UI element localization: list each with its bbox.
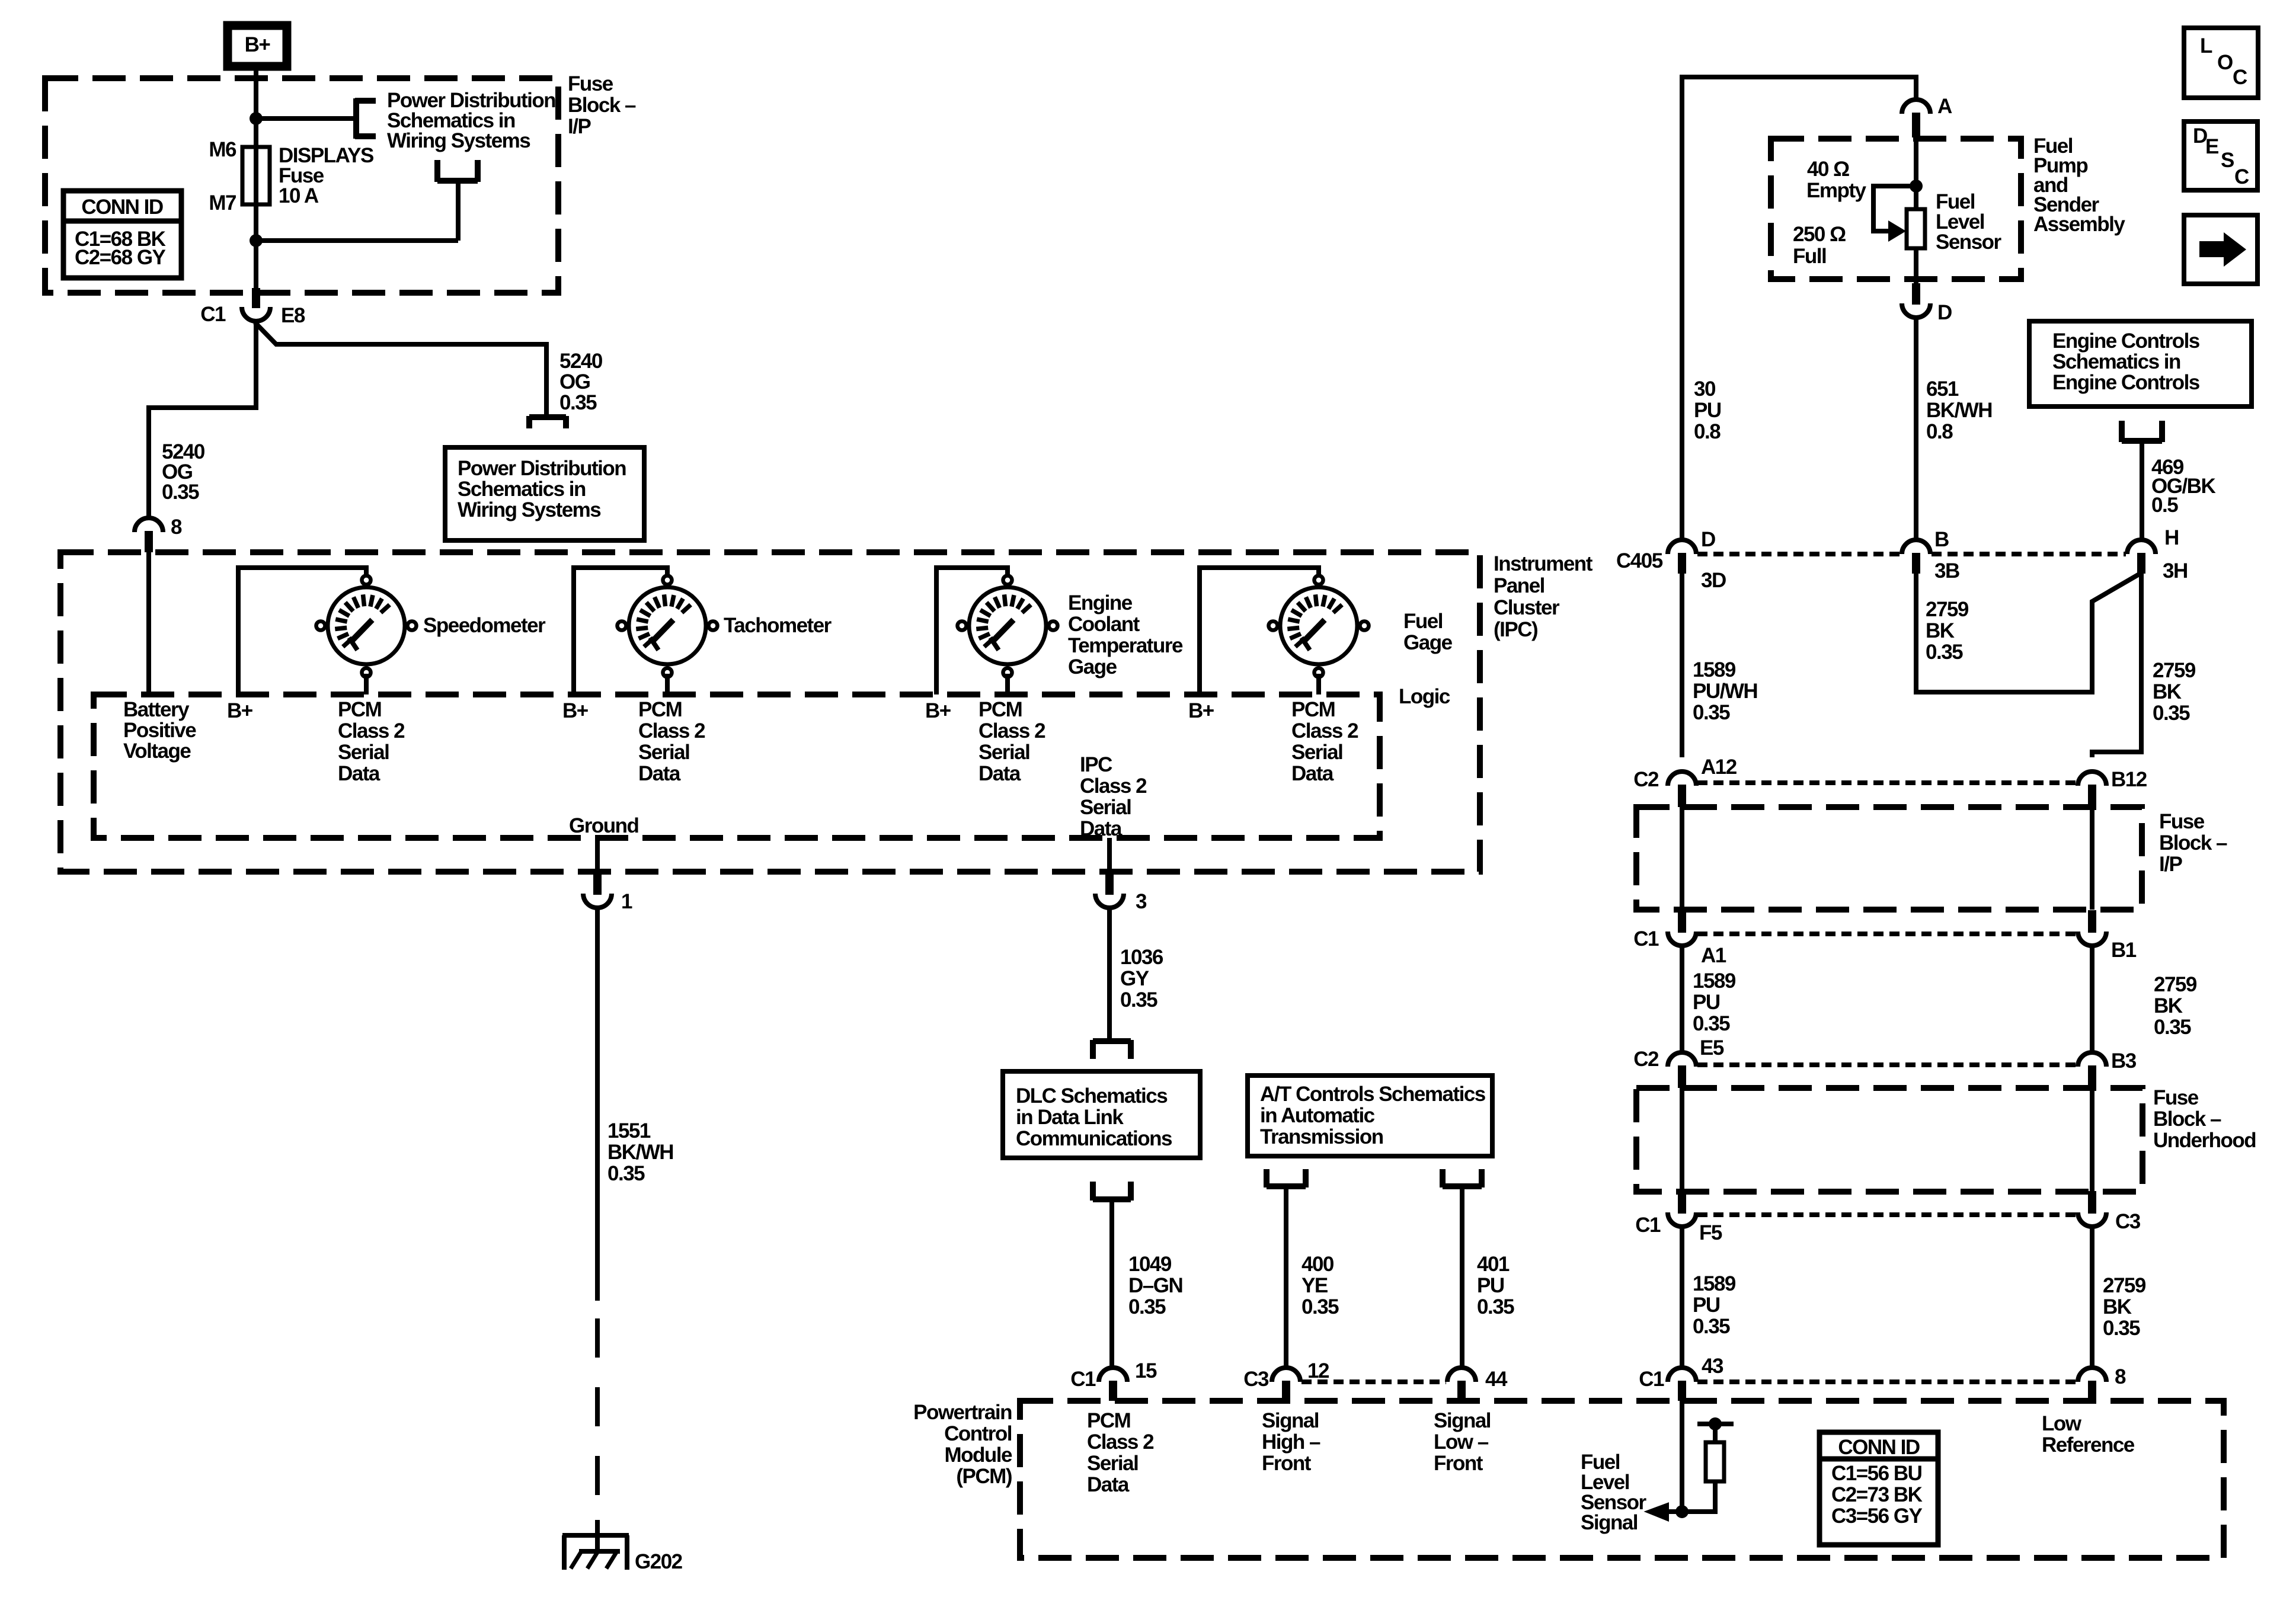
svg-text:Assembly: Assembly bbox=[2033, 213, 2125, 236]
legend box arrow bbox=[2184, 215, 2257, 284]
svg-text:1036: 1036 bbox=[1120, 946, 1163, 969]
label Power Distribution Schematics in Wiring Systems bbox=[387, 89, 555, 152]
svg-text:0.35: 0.35 bbox=[2154, 1016, 2191, 1039]
svg-text:Power Distribution: Power Distribution bbox=[458, 457, 626, 480]
label Fuel Level Sensor bbox=[1936, 190, 2002, 254]
box A/T Controls Schematics in Automatic Transmission bbox=[1248, 1076, 1492, 1156]
svg-text:B3: B3 bbox=[2111, 1049, 2137, 1073]
connector 3 (IPC class 2) bbox=[1095, 873, 1124, 908]
svg-text:Class 2: Class 2 bbox=[1291, 719, 1358, 742]
junction node wiper bbox=[1910, 180, 1923, 193]
svg-text:C1: C1 bbox=[1070, 1368, 1096, 1391]
svg-text:1589: 1589 bbox=[1693, 658, 1736, 681]
wire IPC serial inside IPC bbox=[1107, 838, 1112, 873]
connector C1 pin 43 (PCM) bbox=[1668, 1368, 1696, 1401]
svg-text:Fuel: Fuel bbox=[1403, 610, 1443, 633]
svg-text:3B: 3B bbox=[1934, 559, 1959, 582]
wire 2759 BK (C3-8) bbox=[2090, 1227, 2094, 1369]
svg-text:High –: High – bbox=[1262, 1430, 1320, 1454]
svg-text:C3: C3 bbox=[1243, 1368, 1269, 1391]
svg-text:0.35: 0.35 bbox=[162, 481, 199, 504]
connector C1 pin A1 bbox=[1668, 910, 1696, 946]
svg-text:B+: B+ bbox=[245, 33, 271, 56]
label Instrument Panel Cluster (IPC) bbox=[1494, 552, 1593, 641]
label circuit 469 OG/BK 0.5 bbox=[2151, 456, 2215, 517]
svg-text:Module: Module bbox=[945, 1443, 1013, 1467]
connector B3 bbox=[2078, 1052, 2106, 1088]
svg-text:Positive: Positive bbox=[123, 719, 196, 742]
wire Tachometer class 2 output bbox=[665, 674, 670, 694]
svg-text:DLC Schematics: DLC Schematics bbox=[1016, 1084, 1168, 1108]
wire resistor top bbox=[1713, 1424, 1718, 1442]
wire 2759 BK to B12 bbox=[2092, 574, 2141, 757]
svg-text:Data: Data bbox=[1087, 1473, 1130, 1496]
svg-text:Wiring Systems: Wiring Systems bbox=[387, 129, 530, 152]
bracket under A/T box (signal high) bbox=[1267, 1169, 1306, 1188]
svg-text:3: 3 bbox=[1136, 890, 1147, 913]
label pin A1 bbox=[1701, 944, 1726, 967]
svg-text:B+: B+ bbox=[925, 699, 951, 722]
label pin B3 bbox=[2111, 1049, 2137, 1073]
svg-text:Speedometer: Speedometer bbox=[423, 614, 546, 637]
svg-text:0.8: 0.8 bbox=[1926, 420, 1953, 443]
wire 1589 PU (F5-43) bbox=[1680, 1227, 1684, 1369]
svg-text:M7: M7 bbox=[209, 191, 236, 215]
svg-text:0.35: 0.35 bbox=[2103, 1317, 2140, 1340]
svg-text:PU/WH: PU/WH bbox=[1693, 680, 1757, 703]
wire 2759 BK (B1-B3) bbox=[2090, 946, 2094, 1054]
bracket under A/T box (signal low) bbox=[1443, 1169, 1482, 1188]
wire B+ feed ECT gage bbox=[936, 568, 1008, 694]
fuel pump dashed box bbox=[1771, 139, 2021, 279]
fuse block - I/P dashed box bbox=[45, 78, 558, 293]
svg-text:C1: C1 bbox=[1633, 927, 1659, 950]
svg-text:Class 2: Class 2 bbox=[1080, 774, 1147, 798]
dotted line C1 (F5-C3) bbox=[1697, 1212, 2077, 1217]
wire 1036 GY bbox=[1107, 908, 1112, 1042]
connector pin 8 (PCM) bbox=[2078, 1368, 2106, 1401]
svg-text:Engine: Engine bbox=[1068, 591, 1133, 614]
CONN ID table (PCM) bbox=[1819, 1432, 1938, 1545]
svg-text:Class 2: Class 2 bbox=[978, 719, 1045, 742]
label circuit 1551 BK/WH 0.35 bbox=[607, 1119, 673, 1185]
svg-text:Logic: Logic bbox=[1399, 685, 1450, 708]
wire ground inside IPC bbox=[595, 838, 600, 873]
svg-text:M6: M6 bbox=[209, 138, 236, 161]
dotted line C405 left bbox=[1697, 552, 1901, 556]
label circuit 400 YE 0.35 bbox=[1302, 1253, 1339, 1318]
connector C2 pin A12 bbox=[1668, 772, 1696, 807]
svg-text:A12: A12 bbox=[1701, 756, 1737, 779]
svg-text:Wiring Systems: Wiring Systems bbox=[458, 498, 601, 521]
label M7 (fuse bottom pin) bbox=[209, 191, 236, 215]
connector C1 pin 15 (PCM) bbox=[1099, 1368, 1127, 1401]
wire B+ feed Speedometer bbox=[238, 568, 366, 694]
svg-text:L: L bbox=[2200, 34, 2212, 57]
svg-text:BK: BK bbox=[2153, 680, 2182, 703]
label Fuel Level Sensor Signal bbox=[1581, 1451, 1647, 1534]
svg-text:Fuse: Fuse bbox=[2159, 810, 2205, 833]
svg-text:Low –: Low – bbox=[1434, 1430, 1489, 1454]
svg-text:C2: C2 bbox=[1633, 768, 1659, 791]
svg-text:C: C bbox=[2233, 66, 2247, 89]
svg-text:CONN ID: CONN ID bbox=[81, 196, 163, 219]
svg-text:D–GN: D–GN bbox=[1128, 1274, 1182, 1297]
bracket under DLC box bbox=[1093, 1182, 1131, 1201]
svg-text:44: 44 bbox=[1485, 1368, 1508, 1391]
svg-text:IPC: IPC bbox=[1080, 753, 1112, 776]
label pin 8 bbox=[171, 516, 182, 539]
wire A12 to A1 inside fuse block bbox=[1680, 807, 1684, 910]
label circuit 1589 PU 0.35 (A1) bbox=[1693, 969, 1736, 1035]
wire E5 to F5 inside underhood bbox=[1680, 1088, 1684, 1192]
box Power Distribution Schematics in Wiring Systems bbox=[445, 447, 644, 540]
svg-text:Full: Full bbox=[1793, 245, 1826, 268]
svg-text:3D: 3D bbox=[1701, 569, 1726, 592]
svg-text:BK: BK bbox=[2103, 1295, 2132, 1318]
connector D (fuel pump) bbox=[1902, 283, 1930, 318]
svg-text:D: D bbox=[1937, 301, 1952, 324]
svg-text:2759: 2759 bbox=[1926, 598, 1969, 621]
label PCM Class 2 Serial Data (ECT gage) bbox=[978, 698, 1045, 785]
svg-text:40 Ω: 40 Ω bbox=[1807, 158, 1849, 181]
wire to power distribution return bbox=[256, 183, 458, 241]
connector A (fuel pump) bbox=[1902, 100, 1930, 137]
svg-text:10 A: 10 A bbox=[279, 184, 319, 207]
svg-text:C3=56 GY: C3=56 GY bbox=[1831, 1505, 1923, 1528]
svg-text:Serial: Serial bbox=[638, 741, 689, 764]
label pin D (C405) bbox=[1701, 528, 1715, 551]
label Speedometer bbox=[423, 614, 546, 637]
svg-text:Data: Data bbox=[978, 762, 1021, 785]
svg-text:C1: C1 bbox=[200, 303, 226, 326]
label circuit 2759 BK 0.35 (3H) bbox=[2153, 659, 2196, 725]
label G202 bbox=[635, 1550, 683, 1573]
label C1 (F5) bbox=[1635, 1214, 1661, 1237]
connector H (C405) bbox=[2127, 540, 2156, 574]
label pin A bbox=[1937, 95, 1952, 118]
svg-text:Instrument: Instrument bbox=[1494, 552, 1593, 575]
label circuit 5240 OG 0.35 (right) bbox=[559, 350, 603, 414]
wire 469 OG/BK bbox=[2140, 441, 2144, 539]
svg-text:BK/WH: BK/WH bbox=[1926, 399, 1992, 422]
svg-text:12: 12 bbox=[1307, 1359, 1329, 1382]
lead bracket (power distribution reference) bbox=[355, 98, 376, 139]
svg-text:Powertrain: Powertrain bbox=[913, 1401, 1012, 1424]
wire 651 BK/WH bbox=[1914, 318, 1918, 539]
label 250 ohm Full bbox=[1793, 223, 1846, 268]
svg-text:PU: PU bbox=[1477, 1274, 1504, 1297]
svg-text:0.35: 0.35 bbox=[559, 391, 597, 414]
svg-text:0.35: 0.35 bbox=[1128, 1295, 1166, 1318]
label Ground bbox=[569, 814, 638, 837]
label Low Reference bbox=[2042, 1412, 2135, 1457]
label 3D bbox=[1701, 569, 1726, 592]
svg-text:Class 2: Class 2 bbox=[338, 719, 405, 742]
svg-text:Voltage: Voltage bbox=[123, 740, 191, 763]
svg-text:PU: PU bbox=[1694, 399, 1721, 422]
svg-text:C2=73 BK: C2=73 BK bbox=[1831, 1483, 1923, 1506]
svg-text:B+: B+ bbox=[562, 699, 589, 722]
label PCM Class 2 Serial Data (tachometer) bbox=[638, 698, 705, 785]
svg-text:B12: B12 bbox=[2111, 768, 2147, 791]
label pin 12 bbox=[1307, 1359, 1329, 1382]
label pin B1 bbox=[2111, 939, 2137, 962]
IPC logic dashed box bbox=[94, 694, 1380, 838]
label circuit 1049 D-GN 0.35 bbox=[1128, 1253, 1182, 1318]
label pin B (C405) bbox=[1934, 528, 1949, 551]
svg-text:A1: A1 bbox=[1701, 944, 1726, 967]
label B+ (ECT gage) bbox=[925, 699, 951, 722]
svg-text:5240: 5240 bbox=[559, 350, 603, 373]
label B+ (Fuel gage) bbox=[1188, 699, 1214, 722]
svg-text:Block –: Block – bbox=[2153, 1108, 2221, 1131]
svg-text:A/T Controls Schematics: A/T Controls Schematics bbox=[1260, 1083, 1486, 1106]
label Powertrain Control Module (PCM) bbox=[913, 1401, 1012, 1488]
dotted line C2 (A12-B12) bbox=[1697, 780, 2077, 785]
svg-text:Tachometer: Tachometer bbox=[724, 614, 832, 637]
label Fuel Pump and Sender Assembly bbox=[2033, 135, 2125, 236]
wire 1589 PU (A1-E5) bbox=[1680, 946, 1684, 1054]
wire 5240 OG branch bbox=[255, 322, 546, 417]
label C3 (PCM pin 12) bbox=[1243, 1368, 1269, 1391]
svg-text:PCM: PCM bbox=[338, 698, 381, 721]
svg-text:1: 1 bbox=[621, 890, 632, 913]
svg-text:Transmission: Transmission bbox=[1260, 1125, 1383, 1148]
label circuit 401 PU 0.35 bbox=[1477, 1253, 1514, 1318]
svg-text:Schematics in: Schematics in bbox=[458, 478, 586, 501]
label circuit 651 BK/WH 0.8 bbox=[1926, 377, 1992, 443]
svg-text:Signal: Signal bbox=[1434, 1409, 1491, 1432]
wire B+ feed Tachometer bbox=[574, 568, 667, 694]
label pin 44 bbox=[1485, 1368, 1508, 1391]
label IPC Class 2 Serial Data bbox=[1080, 753, 1147, 840]
svg-text:Empty: Empty bbox=[1806, 179, 1867, 202]
gauge ECT gage bbox=[958, 576, 1058, 677]
wire 1551 BK/WH bbox=[595, 908, 600, 1301]
svg-text:Low: Low bbox=[2042, 1412, 2082, 1435]
svg-text:Data: Data bbox=[638, 762, 681, 785]
svg-text:F5: F5 bbox=[1699, 1221, 1722, 1244]
svg-text:Cluster: Cluster bbox=[1494, 596, 1560, 619]
wire fuel pump feed top bbox=[1682, 77, 1916, 540]
svg-text:Gage: Gage bbox=[1403, 631, 1453, 654]
connector C2 pin E5 bbox=[1668, 1052, 1696, 1088]
svg-text:8: 8 bbox=[171, 516, 182, 539]
label pin F5 bbox=[1699, 1221, 1722, 1244]
label Fuel Gage bbox=[1403, 610, 1453, 654]
label circuit 1036 GY 0.35 bbox=[1120, 946, 1163, 1012]
wire ECT gage class 2 output bbox=[1005, 674, 1010, 694]
label pin E5 bbox=[1700, 1036, 1724, 1060]
legend box LOC bbox=[2184, 28, 2258, 98]
powertrain control module dashed box bbox=[1020, 1401, 2224, 1558]
svg-text:0.35: 0.35 bbox=[1693, 1012, 1730, 1035]
label pin 1 bbox=[621, 890, 632, 913]
connector B1 bbox=[2078, 910, 2106, 946]
connector 8 (IPC battery positive) bbox=[135, 518, 163, 552]
dotted line C1 (A1-B1) bbox=[1697, 932, 2077, 936]
svg-text:Data: Data bbox=[338, 762, 380, 785]
svg-text:C1=56 BU: C1=56 BU bbox=[1831, 1462, 1922, 1485]
svg-text:Coolant: Coolant bbox=[1068, 613, 1140, 636]
svg-text:PU: PU bbox=[1693, 1294, 1720, 1317]
svg-text:Fuse: Fuse bbox=[568, 72, 613, 95]
svg-text:C1: C1 bbox=[1635, 1214, 1661, 1237]
svg-text:D: D bbox=[1701, 528, 1715, 551]
label Fuse Block - Underhood bbox=[2153, 1086, 2256, 1152]
internal bus stub (PCM) bbox=[1697, 1422, 1734, 1426]
svg-text:B: B bbox=[1934, 528, 1949, 551]
svg-text:(PCM): (PCM) bbox=[956, 1465, 1012, 1488]
svg-text:1589: 1589 bbox=[1693, 969, 1736, 993]
svg-text:in Automatic: in Automatic bbox=[1260, 1104, 1375, 1127]
svg-text:0.5: 0.5 bbox=[2151, 494, 2178, 517]
svg-text:B+: B+ bbox=[227, 699, 253, 722]
label Logic bbox=[1399, 685, 1450, 708]
svg-text:E5: E5 bbox=[1700, 1036, 1724, 1060]
bracket under power distribution text bbox=[437, 160, 478, 182]
svg-text:Panel: Panel bbox=[1494, 574, 1544, 597]
svg-text:CONN ID: CONN ID bbox=[1838, 1436, 1920, 1459]
box DLC Schematics in Data Link Communications bbox=[1003, 1071, 1200, 1158]
wire resistor bottom bbox=[1682, 1481, 1715, 1512]
label DISPLAYS Fuse 10 A bbox=[279, 144, 373, 207]
wire to signal arrow bbox=[1655, 1509, 1682, 1514]
CONN ID table (fuse block I/P) bbox=[63, 191, 181, 278]
dotted line C3 (PCM) bbox=[1302, 1379, 1446, 1384]
ground G202 bbox=[562, 1520, 629, 1570]
label B+ (Tachometer) bbox=[562, 699, 589, 722]
fuse DISPLAYS 10A bbox=[242, 147, 270, 204]
instrument panel cluster dashed box bbox=[60, 552, 1480, 872]
label Fuse Block - I/P (right) bbox=[2159, 810, 2227, 876]
wire 1589 PU/WH bbox=[1680, 574, 1684, 757]
svg-text:43: 43 bbox=[1702, 1355, 1723, 1378]
label pin A12 bbox=[1701, 756, 1737, 779]
connector pin 44 (PCM) bbox=[1447, 1368, 1476, 1401]
label circuit 2759 BK 0.35 (3B) bbox=[1926, 598, 1969, 664]
wire battery positive inside IPC bbox=[146, 552, 151, 694]
bracket above power distribution box bbox=[529, 416, 566, 428]
fuse block underhood dashed box bbox=[1636, 1088, 2142, 1192]
dotted line C405 right bbox=[1932, 552, 2126, 556]
svg-text:15: 15 bbox=[1135, 1359, 1157, 1382]
wire 400 YE bbox=[1284, 1186, 1288, 1368]
svg-text:Temperature: Temperature bbox=[1068, 634, 1183, 657]
svg-text:I/P: I/P bbox=[2159, 853, 2182, 876]
label Battery Positive Voltage bbox=[123, 698, 196, 763]
svg-text:1049: 1049 bbox=[1128, 1253, 1172, 1276]
svg-text:A: A bbox=[1937, 95, 1952, 118]
label circuit 30 PU 0.8 bbox=[1694, 377, 1721, 443]
svg-text:Control: Control bbox=[944, 1422, 1012, 1445]
label C1 (43) bbox=[1639, 1368, 1664, 1391]
svg-text:Engine Controls: Engine Controls bbox=[2052, 329, 2200, 353]
label pin B12 bbox=[2111, 768, 2147, 791]
svg-text:C: C bbox=[2234, 165, 2249, 188]
svg-text:Front: Front bbox=[1434, 1452, 1483, 1475]
svg-text:C2: C2 bbox=[1633, 1048, 1659, 1071]
dotted line C2 (E5-B3) bbox=[1697, 1062, 2077, 1067]
label pin D bbox=[1937, 301, 1952, 324]
svg-text:C1: C1 bbox=[1639, 1368, 1664, 1391]
svg-text:30: 30 bbox=[1694, 377, 1716, 401]
svg-text:0.35: 0.35 bbox=[1477, 1295, 1514, 1318]
wire to schematic reference bbox=[256, 116, 356, 121]
gauge Tachometer bbox=[618, 576, 718, 677]
label pin 8 (PCM) bbox=[2115, 1365, 2126, 1388]
wire Fuel gage class 2 output bbox=[1316, 674, 1321, 694]
svg-text:Data: Data bbox=[1080, 817, 1123, 840]
svg-text:BK/WH: BK/WH bbox=[607, 1141, 673, 1164]
label 3B bbox=[1934, 559, 1959, 582]
svg-text:(IPC): (IPC) bbox=[1494, 618, 1537, 641]
svg-text:2759: 2759 bbox=[2153, 659, 2196, 682]
svg-text:PCM: PCM bbox=[978, 698, 1022, 721]
junction node sensor signal bbox=[1675, 1505, 1689, 1518]
connector C1 E8 bbox=[242, 288, 270, 321]
label Signal Low - Front bbox=[1434, 1409, 1491, 1475]
svg-text:H: H bbox=[2164, 526, 2179, 549]
svg-text:Battery: Battery bbox=[123, 698, 190, 721]
label circuit 2759 BK 0.35 (B1) bbox=[2154, 973, 2197, 1039]
svg-text:in Data Link: in Data Link bbox=[1016, 1106, 1124, 1129]
fuel level sensor potentiometer bbox=[1907, 209, 1925, 248]
label C1 bbox=[200, 303, 226, 326]
svg-text:2759: 2759 bbox=[2103, 1274, 2146, 1297]
svg-text:C3: C3 bbox=[2115, 1210, 2141, 1233]
svg-text:G202: G202 bbox=[635, 1550, 683, 1573]
svg-text:250 Ω: 250 Ω bbox=[1793, 223, 1846, 246]
svg-text:PCM: PCM bbox=[1291, 698, 1335, 721]
connector B12 bbox=[2078, 772, 2106, 807]
svg-text:B1: B1 bbox=[2111, 939, 2137, 962]
svg-text:GY: GY bbox=[1120, 967, 1149, 990]
svg-text:I/P: I/P bbox=[568, 115, 591, 138]
power node B+ bbox=[228, 25, 287, 66]
svg-text:Gage: Gage bbox=[1068, 655, 1117, 678]
wire Speedometer class 2 output bbox=[364, 674, 369, 694]
svg-text:C405: C405 bbox=[1616, 549, 1663, 572]
svg-text:0.35: 0.35 bbox=[2153, 702, 2190, 725]
svg-text:PCM: PCM bbox=[638, 698, 682, 721]
svg-text:Ground: Ground bbox=[569, 814, 638, 837]
wire B12 to B1 inside fuse block bbox=[2090, 807, 2094, 910]
dotted line C1 (43-8) bbox=[1697, 1379, 2077, 1384]
label C1 (A1) bbox=[1633, 927, 1659, 950]
label M6 (fuse top pin) bbox=[209, 138, 236, 161]
box Engine Controls Schematics in Engine Controls bbox=[2029, 321, 2252, 406]
svg-text:0.35: 0.35 bbox=[1693, 1315, 1730, 1338]
fuse block I/P dashed box (right) bbox=[1636, 807, 2142, 910]
svg-text:BK: BK bbox=[1926, 619, 1955, 642]
svg-text:Data: Data bbox=[1291, 762, 1334, 785]
svg-text:Signal: Signal bbox=[1581, 1511, 1638, 1534]
label pin 43 bbox=[1702, 1355, 1723, 1378]
label PCM Class 2 Serial Data (fuel gage) bbox=[1291, 698, 1358, 785]
label PCM Class 2 Serial Data (PCM) bbox=[1087, 1409, 1154, 1496]
junction node bottom bbox=[250, 234, 263, 247]
connector B (C405) bbox=[1902, 540, 1930, 574]
svg-text:0.35: 0.35 bbox=[1302, 1295, 1339, 1318]
label circuit 1589 PU 0.35 (F5) bbox=[1693, 1272, 1736, 1338]
svg-text:Schematics in: Schematics in bbox=[2052, 350, 2180, 373]
connector 1 (IPC ground) bbox=[583, 873, 612, 908]
junction node top bbox=[250, 112, 263, 125]
svg-text:0.35: 0.35 bbox=[1693, 701, 1730, 724]
label circuit 2759 BK 0.35 (C3) bbox=[2103, 1274, 2146, 1340]
